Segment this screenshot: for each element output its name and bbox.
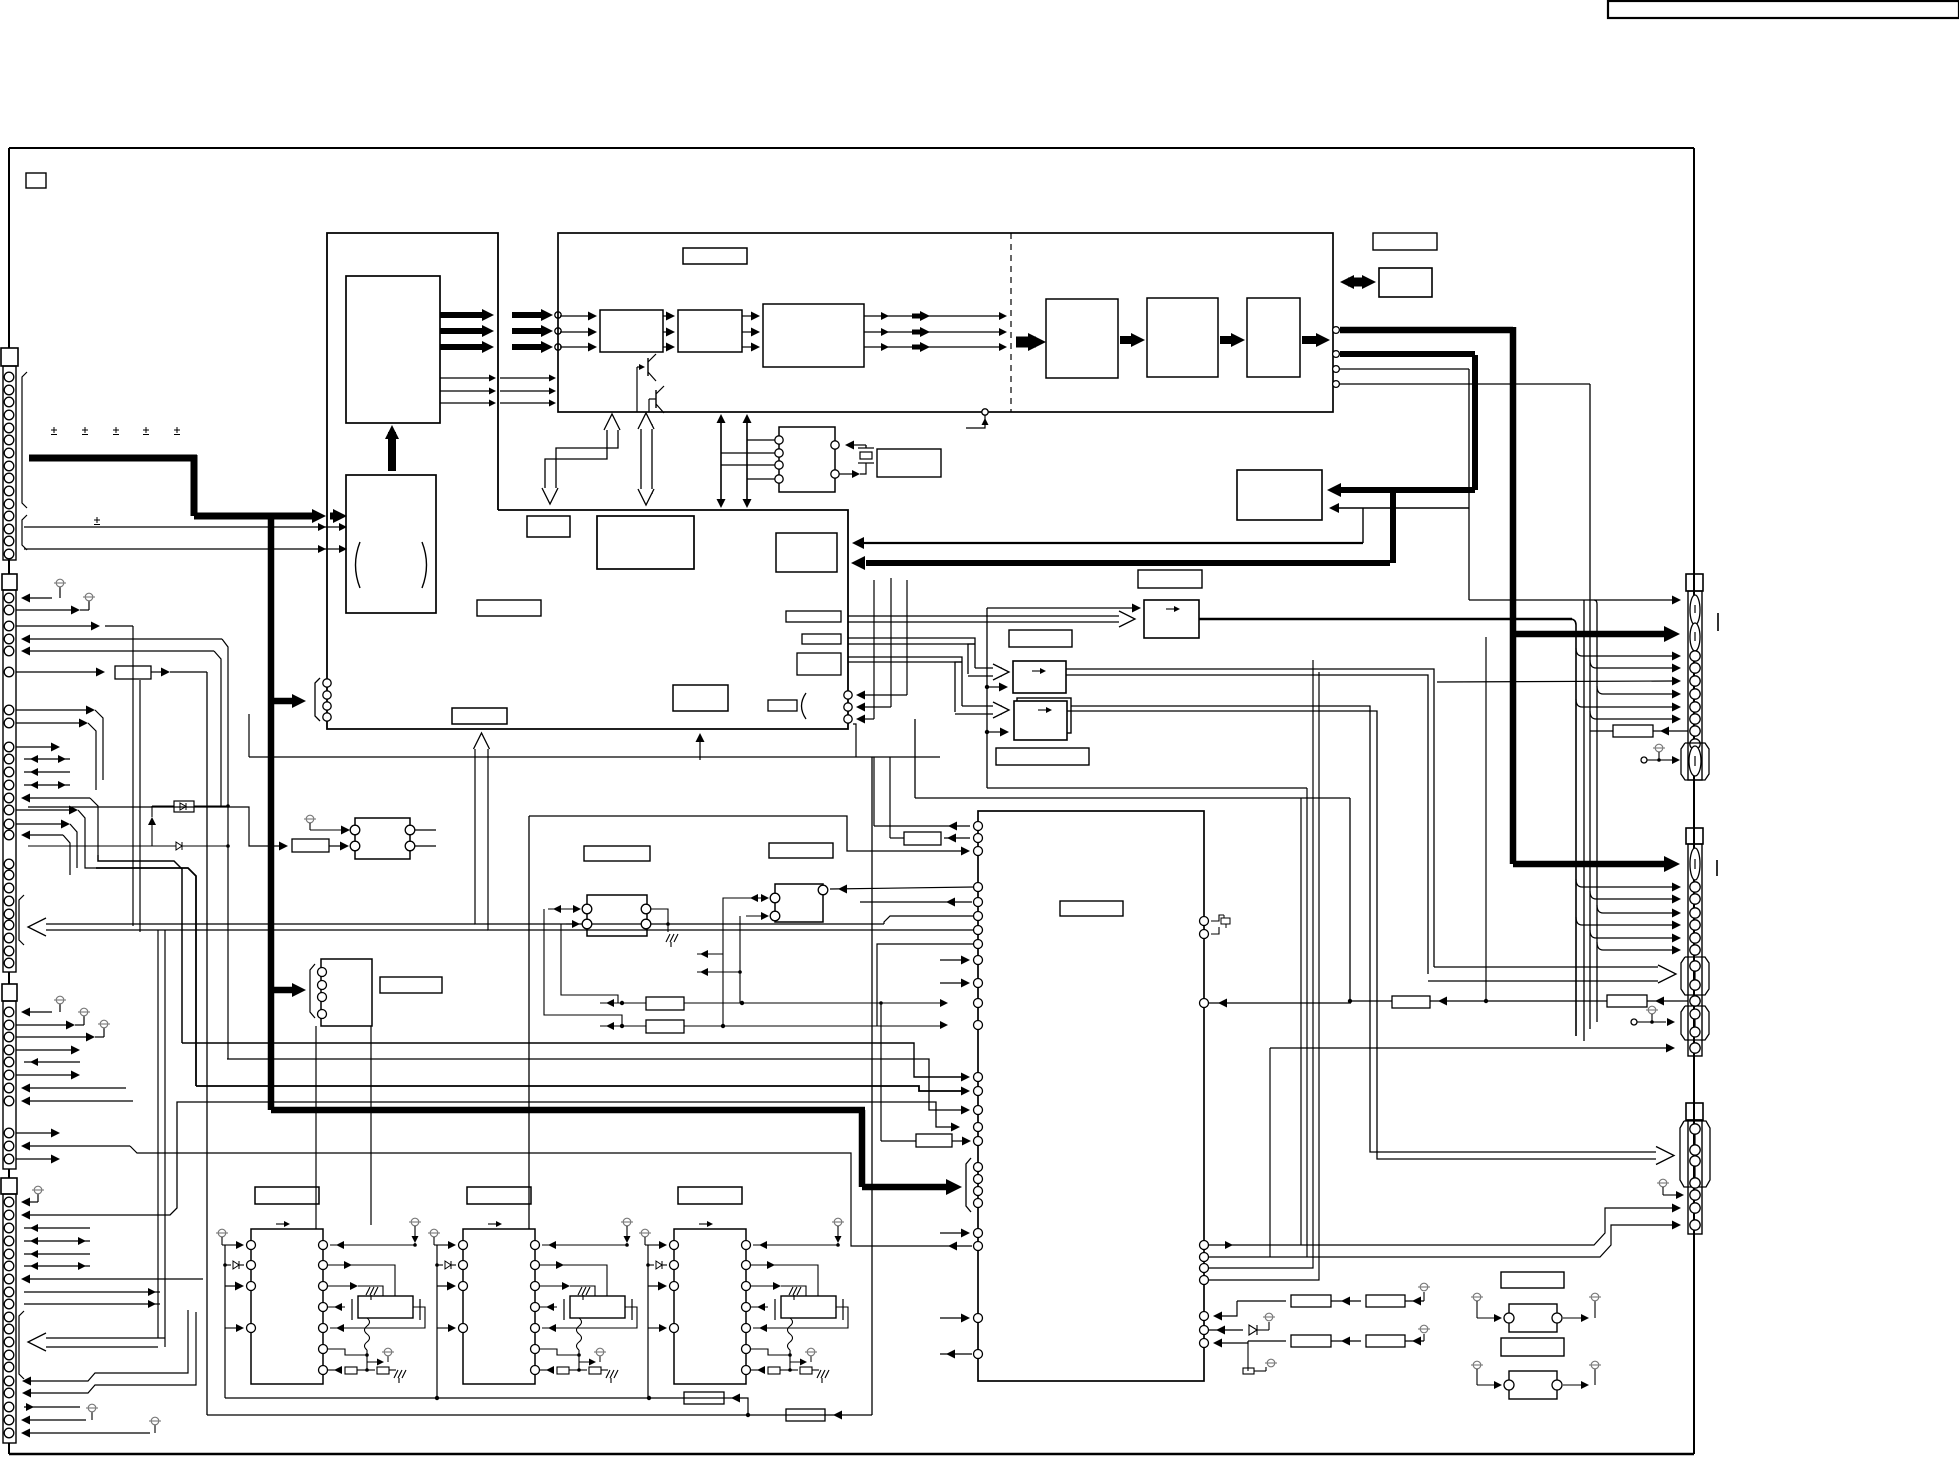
resistor row y1026 [600,1025,646,1027]
CN1 bracket large [22,372,27,508]
driver block 1 right pin 2 [319,1261,328,1270]
sense wire 2 from CN1 [24,548,330,550]
CN2 pin785 arrows [24,784,70,786]
connector CN2 pin 9 [4,742,14,752]
long wire y1102 [24,1102,952,1215]
connector CN2 pin 4 [4,634,14,644]
connector CN2 pin 12 [4,780,14,790]
thick arrow R1 to R2 [1120,336,1136,344]
mech box right pin y1280 [1200,1276,1209,1285]
service bus arrow into big box bracket [862,1184,950,1191]
BR opamp1 pins [1504,1313,1514,1323]
connector CN3 pin 6 [4,1070,14,1080]
thin double arrow link 1 [720,421,722,501]
bus1 vertical [1510,327,1517,864]
CN5 pin 4 [1690,689,1700,699]
driver block 1 sub gnd [366,1287,370,1295]
connector CN2 pin 18 [4,870,14,880]
thin wire DSP out 3 [440,402,489,404]
mech pin wire 916 duct upper [884,916,974,924]
mech box left pin y930 [974,926,983,935]
block R3 [1247,298,1300,377]
outer border bottom edge [9,1453,1694,1456]
signal box output pin 2 [1333,351,1340,358]
horizontal 788 [987,787,1307,789]
driver block 1 tp arrow right [367,1361,377,1363]
bent hollow duct arrow [556,426,618,492]
driver block 3 left pin 4 [670,1324,679,1333]
signal box input pin 2 [555,328,561,334]
control box left pin 3 [323,702,331,710]
mech box left pin y826 [974,822,983,831]
CN5 shield test point [1641,757,1647,763]
mech resistor 838 [944,837,970,839]
line4 from pin4 [1340,383,1590,385]
driver block 2 right pin 7 [531,1366,540,1375]
mech box right pin y1245 [1200,1241,1209,1250]
mode box2 [1013,661,1066,693]
driver block 3 bottom wire [647,1245,649,1398]
connector CN1 pin 15 [4,549,14,559]
driver block 2 left pin 4 [459,1324,468,1333]
driver block 3 coil [788,1318,793,1350]
driver block 3 pin1286 wire [751,1285,775,1287]
long wire y1086 [196,1086,962,1091]
CN6 pin 3 [1690,908,1700,918]
vertical 1485 thin [1485,637,1487,1001]
signal box input pin 3 [555,344,561,350]
driver block 1 diode into 1265 [223,1263,227,1267]
data bus arrow b2 [512,328,545,334]
boxed diode up arrow [151,824,153,846]
control box left pin 4 [323,713,331,721]
long wire y1048 to CN6 pin [1270,1047,1666,1049]
driver block 1 right pin 4 [319,1303,328,1312]
CN6 octagon A pins [1690,961,1700,971]
connector CN2 pin 3 [4,621,14,631]
CN5 pin 5 [1690,702,1700,712]
CN4 pin1292 wire [24,1291,160,1293]
driver block 1 arrow into right pin1245 [330,1244,415,1246]
CN1 bracket small [22,515,27,550]
driver block 2 wire into pin1328 [437,1327,450,1329]
stepped wire L2b [96,868,196,1086]
driver block 1 coil [365,1318,370,1350]
driver3 rail [647,1328,649,1398]
mech box left pin y838 [974,834,983,843]
driver block 2 right pin 4 [531,1303,540,1312]
power bus horizontal from CN1 [29,455,197,462]
connector CN4 pin 3 [4,1223,14,1233]
connector CN1 pin 7 [4,448,14,458]
driver block 2 right pin 5 [531,1324,540,1333]
connector CN2 shell square [2,574,17,590]
CN4 pin1279 wire [24,1278,203,1280]
mech box left pin y1179 [974,1175,983,1184]
mech box left pin y1318 [974,1314,983,1323]
sync IC wire pin4 [747,478,775,480]
CN5 pin 3 [1690,676,1700,686]
arrow into control box y543 [866,542,1363,544]
mech box left pin y1003 [974,999,983,1008]
mech pin wire 944 [877,944,974,1026]
CN5 oval pin 2 [1690,623,1700,651]
driver block 2 left rail [436,1245,438,1328]
CN5 text dash [1717,613,1719,631]
mid resistor [292,839,329,852]
driver block 1 right pin 1 [319,1241,328,1250]
driver block 2 pin1370 resistors [540,1369,553,1371]
driver block 1 sub rect [358,1296,413,1318]
pair656 from control box [848,656,955,658]
block B2 [678,310,742,352]
CN2 link to CN3 [8,972,10,984]
driver bus B resistor [786,1409,825,1421]
driver block 3 label rect [678,1187,742,1204]
mode box3 front [1014,701,1067,740]
CN2 pin672 resistor [16,671,96,673]
clock box right paren [422,542,427,588]
CN2 bracket group [19,895,24,945]
wire y807 gap [69,875,71,880]
tap to CN6 pin 938 [1590,930,1596,938]
connector CN1 shell square [1,348,18,366]
connector CN2 pin 16 [4,830,14,840]
driver block 2 right pin 1 [531,1241,540,1250]
arrow into mode box3 lower [985,730,989,734]
connector CN1 pin 5 [4,423,14,433]
control box left pin 2 [323,691,331,699]
CN7 pin 3 [1690,1220,1700,1230]
driver block 3 wire into pin1328 [648,1327,661,1329]
CN7 octagon [1680,1121,1710,1187]
tap to CN5 pin 707 [1576,699,1582,707]
mode box1 output [1199,618,1572,620]
control bottom label rect [452,708,507,724]
connector CN1 pin 3 [4,397,14,407]
CN6 test point wire [1631,1019,1637,1025]
CN7 pin links [1694,1134,1696,1145]
open arrow into mode box1 [1119,611,1135,627]
connector CN4 body [3,1194,16,1443]
driver bus A arrowhead [724,1397,740,1399]
control box left pin 1 [323,679,331,687]
open arrow into mode box2 [975,667,1002,669]
sync label rect [877,449,941,477]
pair656 verticals [955,657,962,706]
mech box left pin y983 [974,979,983,988]
open arrow into mode box3 [962,705,1002,707]
driver2 rail link [436,1327,438,1329]
mech label rect [1060,901,1123,916]
BR label rect 1 [1501,1272,1564,1288]
servo sub box pin 3 [318,993,327,1002]
CN2 pin639 wire [24,638,222,640]
plus-minus mark 3 on power bus [113,429,119,431]
mech box left pin y1167 [974,1163,983,1172]
data bus arrow a1 [440,312,485,318]
CN4 pin1407 wire [24,1406,80,1408]
CN2 pin835 wire [24,834,63,836]
stub arrow into mech pin 960 [940,959,961,961]
driver block 2 arrow glyph [488,1223,496,1225]
CN2 pin798 wire [24,797,90,799]
CN3 pin1012 wire [24,1011,52,1013]
signal box label rect [683,248,747,264]
connector CN1 pin 11 [4,499,14,509]
sense wire 1 from CN1 [24,526,330,528]
driver block 1 right pin 3 [319,1282,328,1291]
resistor row y1001 left part [1209,1002,1351,1004]
driver2 left rail to busA [436,1328,438,1398]
connector CN4 pin 5 [4,1249,14,1259]
driver block 3 left down wire [647,1327,649,1329]
thin double arrow link 2 [746,421,748,501]
mech pin wire 826 [874,825,970,827]
lower resistor row y1341 [1248,1340,1286,1342]
connector CN4 pin 1 [4,1197,14,1207]
bus1 arrow into CN6 oval [1513,861,1668,868]
connector CN3 pin 5 [4,1057,14,1067]
duct open arrow into octagon [1434,966,1662,968]
bus2 vertical [1472,355,1478,490]
stepped wire L1 [98,855,182,1043]
arrow edge to B1 2 [560,331,588,333]
arrow edge to B1 1 [560,315,588,317]
driver block 1 left pin 3 [247,1282,256,1291]
long wire pair y930 [488,746,974,930]
vertical 1350 [1349,798,1351,1001]
thick bus y563 [866,560,1390,566]
CN2 pin772 arrow [24,771,70,773]
connector CN3 pin 7 [4,1083,14,1093]
CN7 octagon pin 4 [1690,1178,1700,1188]
wire y846 long [152,845,176,847]
driver block 2 coil [577,1318,582,1350]
control box bracket pins [315,678,320,721]
BR opamp rect 1 [1509,1304,1557,1332]
mid opamp tp [306,815,314,823]
connector CN1 pin 10 [4,486,14,496]
mode box3 arrow glyph [1038,709,1046,711]
sync IC wire pin2 [721,452,775,454]
driver block 2 diode into 1265 [435,1263,439,1267]
wire into pin 695 [862,694,907,696]
CN7 octagon pin 1 [1690,1124,1700,1134]
plus-minus mark 5 on power bus [174,429,180,431]
vertical 529 [528,816,530,1229]
CN5 pin 2 [1690,663,1700,673]
service bus vertical x271 [268,516,275,1110]
signal box output pin 3 [1333,366,1340,373]
mech box left pin y1354 [974,1350,983,1359]
connector CN4 lower pin 4 [4,1415,14,1425]
connector CN2 pin 15 [4,819,14,829]
driver block 3 right pin 7 [742,1366,751,1375]
sync IC right pin 2 [831,470,839,478]
connector CN1 pin 9 [4,473,14,483]
wire into CN5 pin1 [1469,599,1672,601]
CN2 pin626 long [105,625,133,627]
CN6 pin 1 [1690,882,1700,892]
open arrow left into CN4 bracket [40,1337,165,1339]
transistor Q1 [647,358,649,376]
mid opamp out1 [415,829,436,831]
diode glyph [176,842,182,850]
transistor Q2 [655,390,657,408]
big box bracket [966,1158,971,1212]
control rect B [776,533,837,572]
sync IC box [779,427,835,492]
block drops to busA [436,1384,438,1398]
driver block 2 right tp [623,1218,631,1226]
connector CN2 pin 2 [4,605,14,615]
control box paren [802,693,807,719]
resistor R right [1607,995,1647,1007]
mech box left pin y944 [974,940,983,949]
wire y682 into CN5 [1437,681,1672,682]
driver block 2 tp arrow right [579,1361,589,1363]
mech box left pin y1110 [974,1106,983,1115]
driver block 3 right pin 4 [742,1303,751,1312]
driver block 1 wire sub right [330,1307,425,1328]
driver block 3 wire sub right [753,1307,848,1328]
driver block 2 arrow into right pin1245 [542,1244,627,1246]
right label rect r3 [797,653,841,675]
connector CN4 pin 8 [4,1287,14,1297]
CN3 pin1075 arrow [16,1074,71,1076]
pair637 from control box [848,637,968,639]
CN4 bracket group [19,1311,24,1379]
driver left rails to busA [224,1328,226,1398]
opampB wire to mech pin 887 [830,887,974,889]
driver bus A resistor [684,1392,724,1404]
driver block 3 sub rect [781,1296,836,1318]
control small rect D [768,700,797,711]
connector CN2 pin 6 [4,667,14,677]
driver block 2 pin1307 wire [540,1306,557,1308]
BR opamp rect 2 [1509,1371,1557,1399]
plus-minus mark on sense line [94,519,100,521]
arrow B1 to B2 2 [663,331,666,333]
CN6 pin 5 [1690,933,1700,943]
CN6 bottom pin [1690,1043,1700,1053]
BR opamp2 pins [1504,1380,1514,1390]
driver block 3 arrow into pin1245 [645,1244,661,1246]
connector CN5 body [1688,591,1702,780]
sync IC left pin 4 [775,475,783,483]
mech box right pin y1343 [1200,1339,1209,1348]
bundle vertical 1597 [1594,600,1597,604]
double headed thick arrow to memory [1340,275,1354,289]
vertical 227 [227,846,229,1059]
vertical 987 [986,608,988,788]
CN4 pin1433 wire [24,1432,150,1434]
stub arrow out of mech pin 902 [860,901,972,903]
CN4 pin1381 wire [30,1310,188,1381]
CN4 pin1420 wire [24,1419,86,1421]
power bus vertical [191,455,198,516]
B3 output line 1 [864,315,1004,317]
servo sub box bracket [310,964,315,1018]
driver block 2 arrow into pin1245 [434,1244,450,1246]
connector CN4 bracket pin 5 [4,1362,14,1372]
CN6 text dash [1716,860,1718,876]
driver block 3 tp arrow right [790,1361,800,1363]
driver block 3 pin1349 wire [751,1349,790,1355]
driver block 3 right pin 3 [742,1282,751,1291]
control label rect C [673,685,728,711]
vertical 249 [248,714,250,757]
stepped wire L2 [85,862,96,868]
driver block 2 wire sub right [542,1307,637,1328]
outer border right edge [1693,148,1695,1454]
connector CN3 pin 9 [4,1128,14,1138]
mid opamp out2 [415,845,436,847]
driver block 2 right pin 3 [531,1282,540,1291]
mech box right pin y1257 [1200,1253,1209,1262]
vertical 316 from sub box [315,1026,317,1229]
driver block 1 left rail [224,1245,226,1328]
border gap note wire [1693,18,1695,148]
CN3 pin1159 arrow [16,1158,51,1160]
driver block 1 right tp [411,1218,419,1226]
block B1 [600,310,663,352]
mech box left pin y1141 [974,1137,983,1146]
driver block 3 pin1307 wire [751,1306,768,1308]
CN5 resistor wire [1653,730,1688,732]
mode box3 back [1017,698,1071,733]
mech wire 1257 to CN7 [1209,1225,1672,1257]
wire 543 riser [1362,508,1364,543]
servo sub box [321,959,372,1026]
CN3 pin1062 arrow [24,1061,80,1063]
driver block 3 right pin 5 [742,1324,751,1333]
mech box left pin y1246 [974,1242,983,1251]
connector CN3 pin 10 [4,1141,14,1151]
CN5 resistor R [1613,725,1653,737]
data bus arrow a3 [440,344,485,350]
driver bus A [225,1397,724,1399]
driver block 1 right pin 7 [319,1366,328,1375]
mode label above box1 [1138,570,1202,588]
long wire y1043 [182,1043,962,1077]
opamp A in2 [566,923,574,925]
driver block 1 right pin 5 [319,1324,328,1333]
outer border left edge upper [8,148,10,348]
plus-minus mark 4 on power bus [143,429,149,431]
driver block 2 left pin 2 [459,1261,468,1270]
wire pin718 to long line [853,724,856,757]
thick arrow clock to DSP [388,432,396,471]
mech box right pin y921 [1200,917,1209,926]
hollow up arrow head [474,733,490,749]
connector CN2 pin 10 [4,754,14,764]
mech box right pin y1316 [1200,1312,1209,1321]
mech box left pin y1233 [974,1229,983,1238]
connector CN3 shell square [2,984,17,1001]
connector CN4 shell square [1,1178,17,1194]
opamp A out gnd [651,923,668,925]
connector CN2 pin 5 [4,646,14,656]
mech box left pin y916 [974,912,983,921]
CN4 pin1215 arrowhead [21,1211,30,1220]
driver block 2 sub gnd [578,1287,582,1295]
CN2 pin824 wire [16,823,61,825]
driver block 2 right pin 2 [531,1261,540,1270]
line3 vertical [1468,369,1470,600]
bus 563 riser to box arrow [1390,490,1396,563]
